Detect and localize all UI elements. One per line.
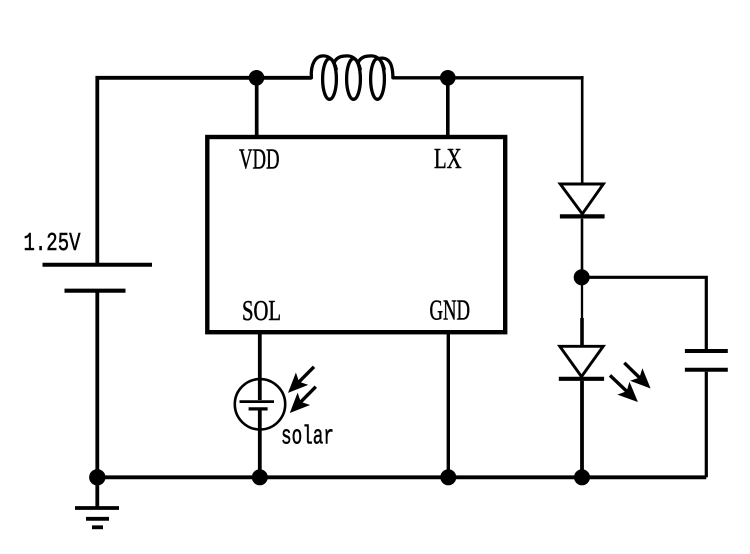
IC U1 box	[207, 137, 505, 332]
svg-text:SOL: SOL	[242, 296, 281, 327]
solar cell PV1 circle	[235, 379, 285, 429]
solar cell PV1 short plate	[249, 407, 268, 410]
battery B1 negative plate	[65, 289, 126, 293]
svg-text:VDD: VDD	[239, 144, 280, 175]
wire VDD pin	[255, 78, 259, 139]
node junction dot bottom rail at LED branch	[574, 469, 590, 485]
ground symbol	[75, 477, 119, 527]
wire top horizontal from inductor to right corner	[393, 76, 584, 79]
diode D1 triangle	[560, 184, 603, 214]
node junction dot on top wire at LX pin	[440, 70, 456, 86]
wire LED D2 to bottom rail	[580, 381, 584, 477]
wire top horizontal from battery to inductor	[97, 78, 311, 263]
node junction dot bottom rail at solar cell	[252, 469, 268, 485]
svg-text:solar: solar	[281, 422, 334, 451]
wire SOL pin to solar cell	[258, 331, 262, 400]
solar cell PV1 long plate	[240, 400, 275, 403]
inductor L1	[311, 56, 393, 99]
capacitor C1 top plate	[685, 349, 728, 353]
wire bottom rail	[97, 475, 706, 479]
LED light arrow 1	[624, 363, 650, 389]
wire D1 to mid node	[581, 219, 584, 278]
wire LED D2 anode lead	[580, 318, 584, 346]
node junction dot mid right	[574, 269, 590, 285]
wire mid node to LED D2	[581, 277, 583, 320]
node junction dot bottom rail at GND pin	[440, 469, 456, 485]
LED D2 triangle	[560, 346, 603, 376]
wire right corner down to diode D1	[581, 76, 584, 184]
wire battery to bottom rail	[95, 291, 99, 477]
wire GND pin to bottom rail	[447, 331, 450, 477]
capacitor C1 bottom plate	[685, 368, 728, 372]
svg-text:1.25V: 1.25V	[24, 228, 81, 258]
diode D1 cathode bar	[560, 214, 605, 218]
solar light arrow 1	[288, 367, 314, 393]
LED D2 cathode bar	[559, 377, 604, 381]
svg-text:LX: LX	[434, 144, 462, 175]
wire mid node to capacitor branch	[582, 277, 707, 349]
node junction dot on top wire at VDD pin	[249, 70, 265, 86]
LED light arrow 2	[610, 375, 638, 402]
svg-text:GND: GND	[430, 295, 471, 326]
node junction dot bottom rail at battery	[89, 469, 105, 485]
battery B1 positive plate	[43, 263, 153, 267]
solar light arrow 2	[290, 387, 316, 413]
wire LX pin	[446, 78, 450, 139]
wire solar cell to bottom rail	[258, 411, 262, 478]
wire capacitor to bottom rail	[705, 372, 708, 478]
